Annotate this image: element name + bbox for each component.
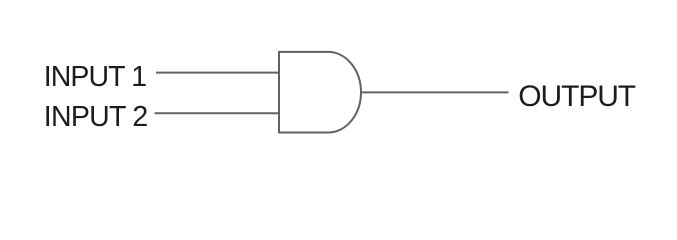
wire from INPUT 1 to gate pin 1 (156, 72, 279, 74)
wire from gate output to OUTPUT (360, 91, 509, 93)
node OUTPUT (518, 80, 635, 114)
wire from INPUT 2 to gate pin 2 (155, 112, 280, 114)
AND gate U1 (279, 52, 361, 133)
node INPUT 1 (44, 61, 146, 94)
node INPUT 2 (44, 101, 148, 134)
